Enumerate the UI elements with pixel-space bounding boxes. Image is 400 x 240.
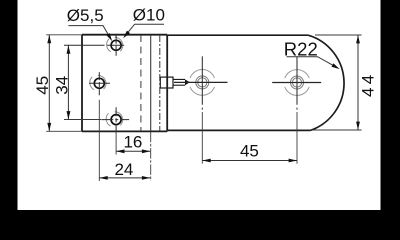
dimension 44 line <box>357 35 359 130</box>
dimension 34 line <box>67 45 69 119</box>
dimension 45 vertical arrows <box>47 35 51 131</box>
hole H2 centerlines <box>89 72 110 95</box>
white drawing sheet <box>18 0 381 210</box>
bend hidden line <box>140 35 142 131</box>
arm hole A2 broken arc <box>285 70 309 96</box>
svg-text:45: 45 <box>240 142 259 161</box>
dimension 24 line <box>99 177 150 179</box>
grease pin shaft <box>173 79 185 85</box>
dimension 45 horizontal arrows <box>202 159 297 163</box>
callout Ø10 leader <box>126 24 165 35</box>
hole H2 spotface arc Ø10 <box>90 75 106 89</box>
right arm outline with R22 arc <box>167 35 344 130</box>
dimension 44 arrows <box>356 35 360 130</box>
arm hole A1 centerlines <box>174 56 228 109</box>
hole H3 centerlines <box>101 107 129 131</box>
arm hole A1 circles <box>196 76 209 89</box>
arm hole A2 circles <box>291 76 304 89</box>
svg-text:34: 34 <box>52 76 71 95</box>
svg-text:24: 24 <box>114 160 133 179</box>
callout R22 arrow <box>332 63 340 69</box>
hole H3 bottom circle Ø5.5 <box>111 115 121 125</box>
hole H1 top circle Ø5.5 <box>111 40 121 50</box>
left plate outline <box>82 35 167 132</box>
callout R22 leader <box>287 57 333 66</box>
hole H3 spotface arc Ø10 <box>106 112 122 126</box>
dimension 45 horizontal line <box>202 160 297 162</box>
grease pin tip <box>185 79 190 85</box>
hole H1 spotface arc Ø10 <box>107 37 123 51</box>
dimension 34 arrows <box>67 45 71 119</box>
bend line <box>150 35 152 131</box>
hole H2 middle circle Ø5.5 <box>94 78 104 88</box>
grease pin body <box>160 77 173 88</box>
svg-text:Ø10: Ø10 <box>133 6 165 25</box>
dimension 45 vertical line <box>48 35 50 131</box>
arm hole A2 centerlines <box>272 56 321 109</box>
callout Ø5,5 leader <box>68 26 110 39</box>
dimension 16 line <box>116 150 150 152</box>
arm hole A1 broken arc <box>190 69 214 95</box>
callout Ø5,5 arrow <box>106 33 112 41</box>
dimension 16 arrows <box>116 149 150 153</box>
svg-text:44: 44 <box>359 72 378 97</box>
svg-text:45: 45 <box>33 76 52 95</box>
hole H1 centerlines <box>64 35 124 56</box>
callout Ø10 arrow <box>123 31 130 39</box>
svg-text:Ø5,5: Ø5,5 <box>67 6 104 25</box>
extension lines <box>46 35 361 181</box>
bend centerline <box>159 35 161 131</box>
svg-text:R22: R22 <box>284 39 318 60</box>
svg-text:16: 16 <box>123 132 142 151</box>
dimension 24 arrows <box>99 176 150 180</box>
